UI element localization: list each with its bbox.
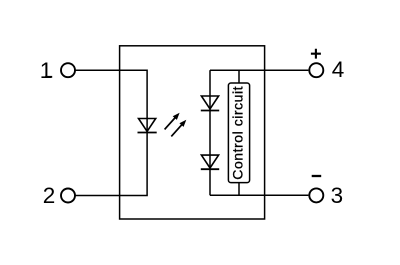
pin 2 terminal <box>61 189 75 203</box>
svg-text:4: 4 <box>332 57 345 82</box>
photodiode D3 (lower) <box>201 155 219 169</box>
control circuit box U1 <box>228 83 249 183</box>
pin 3 terminal <box>309 188 323 202</box>
plus polarity mark <box>311 49 321 59</box>
pin 1 terminal <box>61 63 75 77</box>
wire: bottom rail to pin 3 <box>210 194 308 196</box>
wire: rail to control circuit (top stub) <box>238 70 240 83</box>
wire: pin 1 to LED anode <box>75 70 147 118</box>
pin 4 terminal <box>309 63 323 77</box>
package outline box <box>120 46 265 219</box>
wire: top rail to pin 4 <box>210 69 308 71</box>
LED D1 <box>138 118 157 133</box>
photodiode D2 (upper) <box>201 96 219 111</box>
svg-text:Control circuit: Control circuit <box>229 86 245 180</box>
wire: LED cathode to pin 2 <box>75 133 147 196</box>
minus polarity mark <box>312 175 322 177</box>
svg-text:2: 2 <box>43 183 56 208</box>
light emission arrow (lower) <box>171 120 186 137</box>
light emission arrow (upper) <box>165 113 180 130</box>
svg-text:1: 1 <box>40 58 53 83</box>
svg-text:3: 3 <box>331 183 344 208</box>
wire: control circuit to rail (bottom stub) <box>238 183 240 196</box>
wire: photodiode string <box>209 70 211 195</box>
